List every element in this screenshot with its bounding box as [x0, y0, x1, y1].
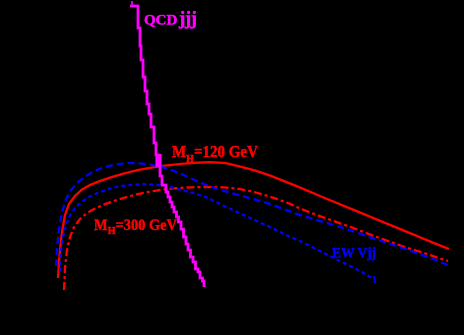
upper background curve (blue dashed) [56, 163, 450, 266]
M_H=300 GeV signal curve (red dash-dot) [64, 187, 448, 290]
svg-text:EW Vjj: EW Vjj [332, 245, 376, 262]
svg-text:MH=300 GeV: MH=300 GeV [94, 217, 177, 237]
M_H=120 GeV signal curve (red solid) [58, 162, 449, 278]
QCD jjj stepped histogram line (magenta) [130, 6, 204, 287]
thick marker blob on QCD line [156, 154, 162, 167]
EW Vjj background curve (blue short-dash) [60, 184, 373, 279]
end tick of EW Vjj curve [374, 276, 375, 283]
svg-text:jjj: jjj [178, 9, 197, 30]
svg-text:QCD: QCD [144, 13, 178, 29]
top tick of QCD histogram line [131, 1, 133, 6]
